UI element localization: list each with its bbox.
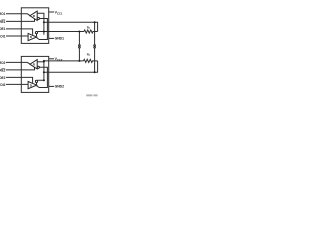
svg-text:RO1: RO1: [0, 12, 6, 16]
svg-text:GND2: GND2: [55, 85, 65, 89]
svg-text:RE1: RE1: [0, 20, 6, 24]
svg-text:VCC1: VCC1: [55, 11, 63, 16]
svg-text:RT: RT: [87, 52, 91, 57]
svg-text:DI1: DI1: [0, 35, 5, 39]
svg-text:R: R: [33, 62, 36, 66]
svg-text:RT: RT: [87, 26, 91, 31]
svg-text:GND1: GND1: [55, 37, 65, 41]
svg-text:DE1: DE1: [0, 27, 6, 31]
svg-text:DI2: DI2: [0, 83, 5, 87]
svg-text:R: R: [33, 14, 36, 18]
svg-text:VCC2: VCC2: [55, 57, 63, 62]
svg-text:DE2: DE2: [0, 76, 6, 80]
svg-text:RO2: RO2: [0, 61, 6, 65]
svg-text:RE2: RE2: [0, 68, 6, 72]
